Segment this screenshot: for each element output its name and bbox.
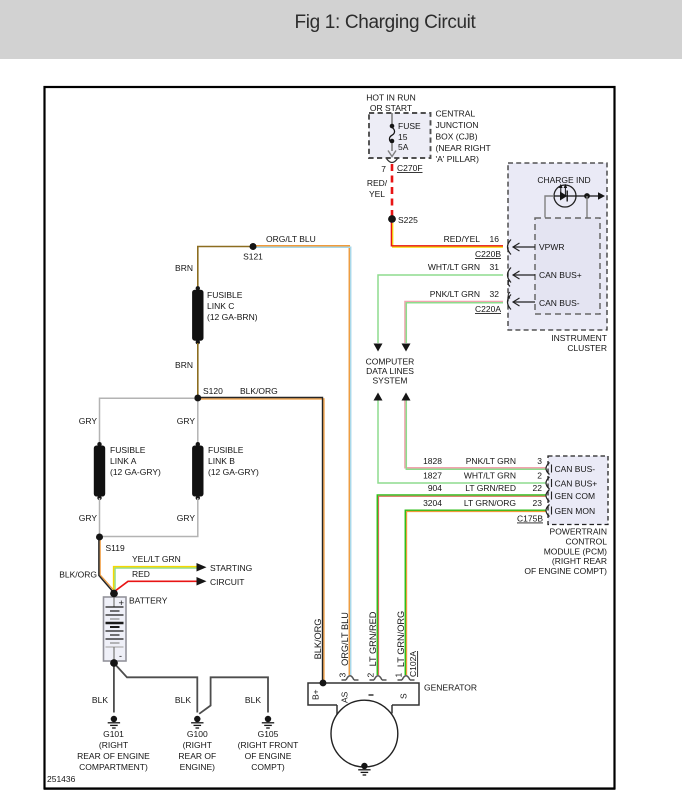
svg-text:COMPUTER: COMPUTER bbox=[366, 357, 415, 367]
svg-text:CAN BUS+: CAN BUS+ bbox=[539, 270, 582, 280]
svg-text:OF ENGINE: OF ENGINE bbox=[245, 751, 292, 761]
svg-text:CIRCUIT: CIRCUIT bbox=[210, 577, 244, 587]
svg-text:LT GRN/RED: LT GRN/RED bbox=[465, 483, 516, 493]
svg-text:WHT/LT GRN: WHT/LT GRN bbox=[464, 471, 516, 481]
svg-text:ORG/LT BLU: ORG/LT BLU bbox=[266, 234, 316, 244]
svg-text:BRN: BRN bbox=[175, 263, 193, 273]
svg-text:VPWR: VPWR bbox=[539, 242, 565, 252]
svg-text:C270F: C270F bbox=[397, 163, 423, 173]
svg-text:1: 1 bbox=[394, 673, 404, 678]
svg-text:BRN: BRN bbox=[175, 360, 193, 370]
svg-text:GRY: GRY bbox=[177, 513, 196, 523]
svg-text:REAR OF: REAR OF bbox=[178, 751, 216, 761]
svg-text:1828: 1828 bbox=[423, 456, 442, 466]
svg-text:S225: S225 bbox=[398, 215, 418, 225]
svg-text:C220B: C220B bbox=[475, 249, 501, 259]
svg-text:STARTING: STARTING bbox=[210, 563, 252, 573]
svg-text:G100: G100 bbox=[187, 729, 208, 739]
svg-text:BLK: BLK bbox=[175, 695, 191, 705]
svg-text:CAN BUS+: CAN BUS+ bbox=[555, 479, 598, 489]
svg-text:(12 GA-GRY): (12 GA-GRY) bbox=[110, 467, 161, 477]
svg-text:BLK: BLK bbox=[245, 695, 261, 705]
svg-text:(12 GA-BRN): (12 GA-BRN) bbox=[207, 312, 258, 322]
svg-text:2: 2 bbox=[537, 471, 542, 481]
svg-text:-: - bbox=[119, 651, 122, 661]
svg-text:S: S bbox=[399, 693, 409, 699]
svg-text:(RIGHT REAR: (RIGHT REAR bbox=[552, 556, 607, 566]
svg-text:CENTRAL: CENTRAL bbox=[436, 109, 476, 119]
svg-text:COMPARTMENT): COMPARTMENT) bbox=[79, 762, 148, 772]
svg-text:LINK A: LINK A bbox=[110, 456, 137, 466]
svg-text:C102A: C102A bbox=[408, 651, 418, 677]
svg-text:HOT IN RUN: HOT IN RUN bbox=[366, 93, 415, 103]
svg-text:COMPT): COMPT) bbox=[251, 762, 285, 772]
svg-text:(NEAR RIGHT: (NEAR RIGHT bbox=[436, 143, 491, 153]
svg-text:BATTERY: BATTERY bbox=[129, 596, 168, 606]
svg-text:CHARGE IND: CHARGE IND bbox=[537, 175, 590, 185]
svg-text:S121: S121 bbox=[243, 252, 263, 262]
svg-text:1827: 1827 bbox=[423, 471, 442, 481]
svg-text:3204: 3204 bbox=[423, 498, 442, 508]
svg-text:FUSIBLE: FUSIBLE bbox=[207, 290, 243, 300]
svg-text:BLK/ORG: BLK/ORG bbox=[240, 386, 278, 396]
svg-text:2: 2 bbox=[366, 673, 376, 678]
svg-text:LT GRN/ORG: LT GRN/ORG bbox=[464, 498, 516, 508]
svg-text:PNK/LT GRN: PNK/LT GRN bbox=[430, 289, 480, 299]
svg-text:251436: 251436 bbox=[47, 774, 76, 784]
svg-text:S120: S120 bbox=[203, 386, 223, 396]
svg-text:G105: G105 bbox=[258, 729, 279, 739]
svg-text:BLK: BLK bbox=[92, 695, 108, 705]
svg-text:CLUSTER: CLUSTER bbox=[567, 343, 607, 353]
svg-text:7: 7 bbox=[381, 164, 386, 174]
svg-text:31: 31 bbox=[490, 262, 500, 272]
svg-text:(RIGHT FRONT: (RIGHT FRONT bbox=[238, 740, 299, 750]
svg-text:(RIGHT: (RIGHT bbox=[183, 740, 212, 750]
svg-text:16: 16 bbox=[490, 234, 500, 244]
svg-text:CAN BUS-: CAN BUS- bbox=[539, 298, 580, 308]
svg-text:22: 22 bbox=[533, 483, 543, 493]
svg-text:LT GRN/RED: LT GRN/RED bbox=[368, 611, 378, 666]
svg-text:RED: RED bbox=[132, 569, 150, 579]
svg-text:REAR OF ENGINE: REAR OF ENGINE bbox=[77, 751, 150, 761]
svg-text:FUSIBLE: FUSIBLE bbox=[208, 445, 244, 455]
svg-text:5A: 5A bbox=[398, 142, 409, 152]
svg-text:B+: B+ bbox=[311, 689, 321, 700]
svg-text:AS: AS bbox=[340, 691, 350, 703]
svg-text:CONTROL: CONTROL bbox=[565, 536, 607, 546]
svg-text:3: 3 bbox=[338, 673, 348, 678]
svg-text:C220A: C220A bbox=[475, 304, 501, 314]
svg-text:LT GRN/ORG: LT GRN/ORG bbox=[396, 611, 406, 667]
svg-text:BLK/ORG: BLK/ORG bbox=[313, 619, 323, 660]
svg-text:'A' PILLAR): 'A' PILLAR) bbox=[436, 154, 480, 164]
svg-text:904: 904 bbox=[428, 483, 442, 493]
svg-text:GRY: GRY bbox=[79, 416, 98, 426]
svg-text:FUSE: FUSE bbox=[398, 121, 421, 131]
svg-text:ENGINE): ENGINE) bbox=[180, 762, 216, 772]
svg-text:C175B: C175B bbox=[517, 514, 543, 524]
svg-text:MODULE (PCM): MODULE (PCM) bbox=[544, 546, 607, 556]
svg-text:POWERTRAIN: POWERTRAIN bbox=[550, 527, 607, 537]
svg-text:15: 15 bbox=[398, 132, 408, 142]
svg-text:INSTRUMENT: INSTRUMENT bbox=[551, 333, 607, 343]
svg-text:Fig 1: Charging Circuit: Fig 1: Charging Circuit bbox=[295, 12, 477, 33]
svg-text:PNK/LT GRN: PNK/LT GRN bbox=[466, 456, 516, 466]
svg-text:RED/: RED/ bbox=[367, 178, 388, 188]
svg-text:GEN COM: GEN COM bbox=[555, 491, 596, 501]
svg-text:23: 23 bbox=[533, 498, 543, 508]
svg-text:CAN BUS-: CAN BUS- bbox=[555, 464, 596, 474]
svg-text:RED/YEL: RED/YEL bbox=[444, 234, 481, 244]
svg-text:BLK/ORG: BLK/ORG bbox=[59, 570, 97, 580]
svg-text:OF ENGINE COMPT): OF ENGINE COMPT) bbox=[524, 566, 607, 576]
svg-text:S119: S119 bbox=[106, 543, 125, 553]
svg-text:GRY: GRY bbox=[79, 513, 98, 523]
svg-text:GENERATOR: GENERATOR bbox=[424, 683, 477, 693]
svg-text:YEL/LT GRN: YEL/LT GRN bbox=[132, 554, 181, 564]
svg-text:ORG/LT BLU: ORG/LT BLU bbox=[340, 612, 350, 666]
svg-text:LINK B: LINK B bbox=[208, 456, 235, 466]
svg-text:BOX (CJB): BOX (CJB) bbox=[436, 132, 478, 142]
svg-text:LINK C: LINK C bbox=[207, 301, 234, 311]
svg-text:YEL: YEL bbox=[369, 189, 385, 199]
svg-text:WHT/LT GRN: WHT/LT GRN bbox=[428, 262, 480, 272]
svg-text:FUSIBLE: FUSIBLE bbox=[110, 445, 146, 455]
svg-text:GEN MON: GEN MON bbox=[555, 506, 596, 516]
svg-text:GRY: GRY bbox=[177, 416, 196, 426]
svg-text:(12 GA-GRY): (12 GA-GRY) bbox=[208, 467, 259, 477]
svg-text:SYSTEM: SYSTEM bbox=[373, 376, 408, 386]
svg-text:3: 3 bbox=[537, 456, 542, 466]
svg-text:DATA LINES: DATA LINES bbox=[366, 366, 414, 376]
svg-text:G101: G101 bbox=[103, 729, 124, 739]
svg-text:OR START: OR START bbox=[370, 103, 412, 113]
svg-text:(RIGHT: (RIGHT bbox=[99, 740, 128, 750]
svg-text:JUNCTION: JUNCTION bbox=[436, 120, 479, 130]
svg-text:32: 32 bbox=[490, 289, 500, 299]
